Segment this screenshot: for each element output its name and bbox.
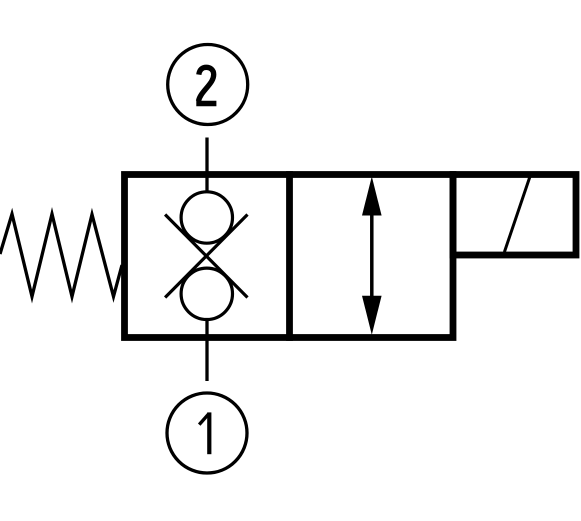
seat line X (tangent, top-right to bottom-left): [165, 215, 247, 298]
divider between poppet section and arrow section: [286, 171, 293, 341]
solenoid box (right): [453, 175, 576, 256]
poppet ball (lower circle): [181, 268, 232, 319]
port 2 circle: [168, 45, 248, 125]
port 1 label: [199, 412, 211, 454]
spring (return spring, left side): [0, 214, 122, 297]
solenoid diagonal stroke: [504, 177, 529, 252]
poppet ball (upper circle): [181, 192, 232, 243]
wire from port 2 to valve body (vertical): [205, 138, 208, 217]
valve body outline (left + middle sections): [125, 175, 454, 338]
flow arrow (double-headed, middle section): [362, 177, 382, 335]
wire from valve body to port 1 (vertical): [205, 295, 208, 381]
seat line X (tangent, top-left to bottom-right): [165, 215, 247, 298]
port 1 circle: [167, 393, 247, 473]
port 2 label: [196, 67, 216, 103]
